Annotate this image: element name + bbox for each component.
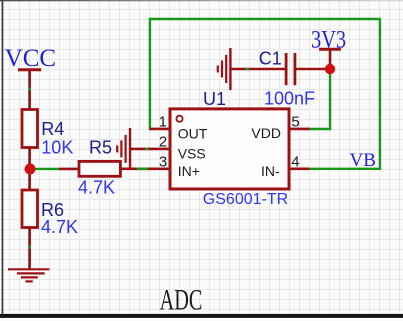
svg-text:2: 2	[159, 134, 167, 151]
svg-text:100nF: 100nF	[264, 88, 315, 108]
svg-text:ADC: ADC	[160, 282, 203, 316]
svg-text:R4: R4	[41, 119, 64, 139]
svg-text:OUT: OUT	[178, 125, 208, 141]
svg-text:IN-: IN-	[261, 163, 280, 179]
svg-text:R5: R5	[89, 138, 112, 158]
svg-text:VSS: VSS	[178, 145, 206, 161]
svg-text:VCC: VCC	[5, 45, 56, 72]
svg-text:U1: U1	[203, 89, 226, 109]
svg-text:3: 3	[159, 153, 167, 170]
svg-text:4.7K: 4.7K	[78, 178, 115, 198]
svg-text:IN+: IN+	[178, 163, 200, 179]
svg-text:VDD: VDD	[251, 125, 281, 141]
svg-text:4.7K: 4.7K	[41, 217, 78, 237]
svg-text:10K: 10K	[41, 138, 73, 158]
svg-text:GS6001-TR: GS6001-TR	[203, 191, 288, 208]
svg-text:3V3: 3V3	[311, 24, 346, 53]
svg-text:1: 1	[159, 113, 167, 130]
svg-text:5: 5	[291, 114, 299, 131]
svg-text:4: 4	[291, 154, 299, 171]
svg-text:C1: C1	[259, 48, 282, 68]
svg-text:VB: VB	[350, 150, 376, 171]
